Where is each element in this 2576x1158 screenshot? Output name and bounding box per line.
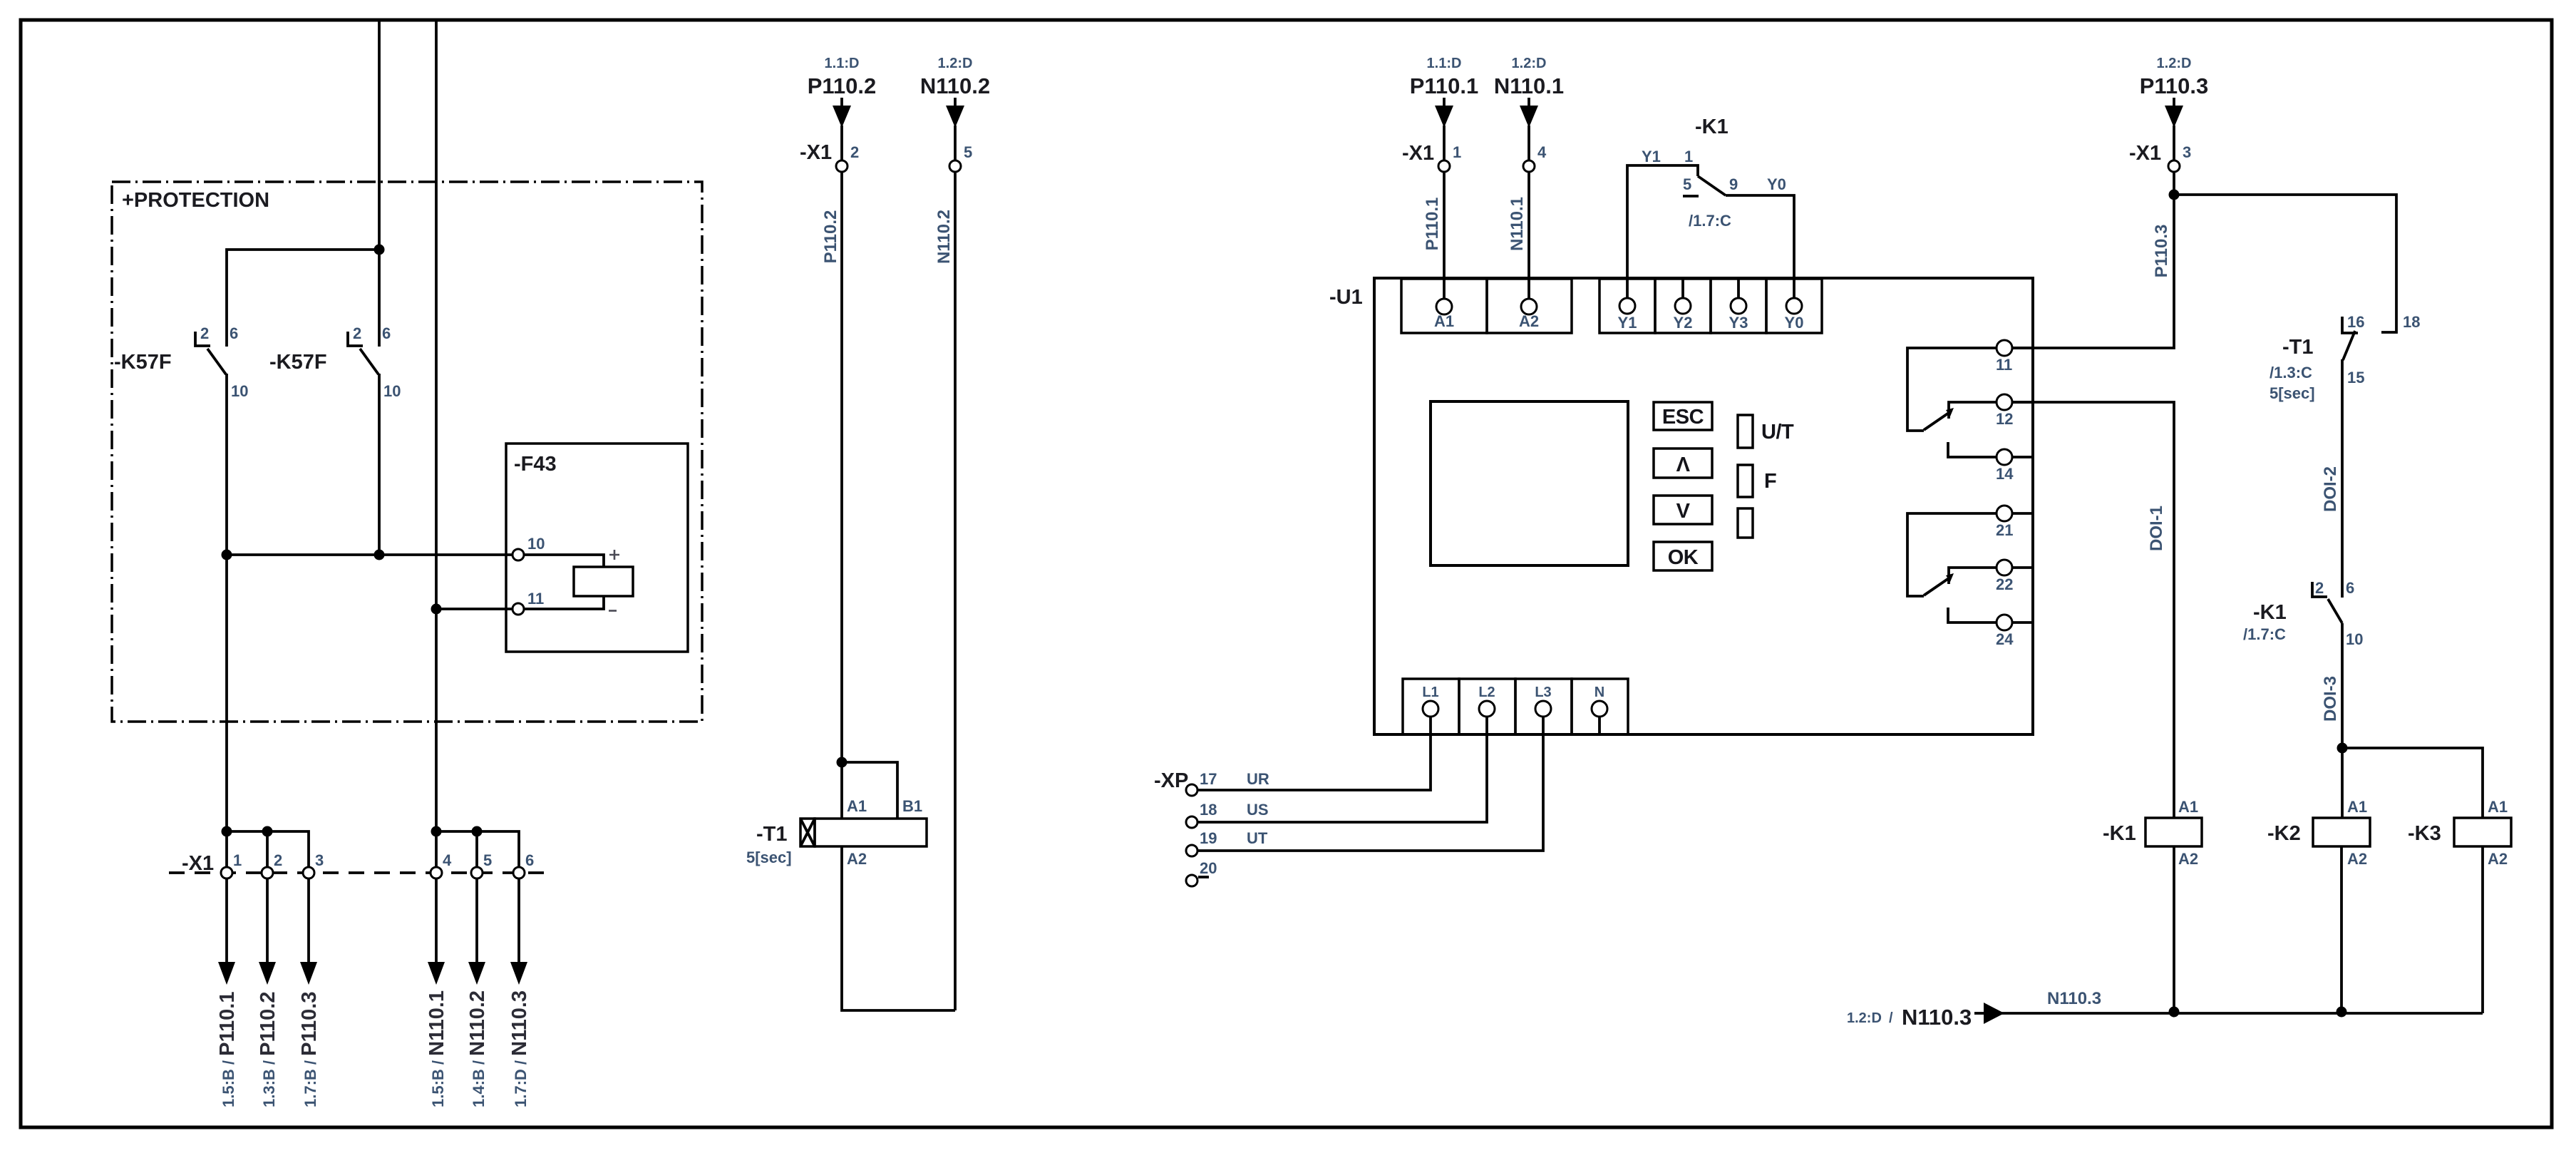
U1 display screen [1431,401,1628,565]
button up [1654,449,1712,478]
wire P110.3 down to contact row 11 [2012,125,2174,348]
wire K3 A2 down [2481,846,2484,1013]
svg-text:-X1: -X1 [2129,142,2161,165]
svg-text:DOI-3: DOI-3 [2321,676,2340,722]
wire P110.2 upper [840,125,843,819]
svg-text:6: 6 [2346,579,2354,597]
svg-text:Λ: Λ [1676,454,1691,476]
svg-text:P110.1: P110.1 [1410,73,1479,98]
node junction [2337,1007,2347,1018]
coil -K1 [2145,798,2202,868]
svg-text:P110.3: P110.3 [2140,73,2209,98]
node junction [262,826,273,837]
terminal -X1:4 [1523,160,1535,172]
node junction [431,826,442,837]
svg-text:A2: A2 [847,850,867,868]
enclosure +PROTECTION (dash-dot boundary) [112,182,702,722]
svg-text:-U1: -U1 [1329,286,1363,309]
svg-text:P110.1: P110.1 [1423,198,1442,251]
wire branch to K3 coil [2342,748,2483,818]
svg-text:21: 21 [1996,521,2013,539]
terminal -X1:5 [471,867,483,878]
wire DOI-1 from contact 12 to K1 coil [2012,402,2174,818]
svg-text:-XP: -XP [1154,769,1188,792]
svg-text:-K57F: -K57F [114,351,172,374]
svg-text:P110.2: P110.2 [808,73,877,98]
svg-text:17: 17 [1200,770,1217,788]
svg-text:-X1: -X1 [1402,142,1434,165]
svg-text:L2: L2 [1478,685,1495,700]
arrow to sheet 1.5:B (N110.1) [428,962,445,985]
svg-text:10: 10 [2346,630,2363,648]
svg-text:A2: A2 [1519,312,1539,330]
pin -XP:17 / wire UR to L1 [1186,717,1431,796]
pin 11 of F43 [512,603,524,615]
svg-text:OK: OK [1668,546,1699,569]
terminal -X1:1 [221,867,232,878]
svg-text:N110.1: N110.1 [1494,73,1564,98]
svg-text:-K57F: -K57F [269,351,327,374]
svg-text:1.2:D: 1.2:D [938,56,973,71]
svg-text:Y0: Y0 [1785,314,1804,332]
node junction [472,826,483,837]
device U1 (soft starter block) [1374,278,2033,734]
svg-text:N110.2: N110.2 [934,210,954,264]
contact -K1 (bottom right) [2243,579,2363,648]
net arrow source 1.1:D / P110.1 [1410,56,1479,128]
svg-text:5: 5 [1683,175,1691,193]
node junction [374,550,385,560]
contact -K1 (top, on Y1/Y0) [1627,116,1794,299]
svg-text:3: 3 [2183,143,2191,161]
svg-text:P110.3: P110.3 [2152,225,2171,278]
svg-text:1.2:D: 1.2:D [1512,56,1547,71]
svg-text:1.7:B / P110.3: 1.7:B / P110.3 [298,992,321,1107]
svg-text:-F43: -F43 [514,453,557,476]
U1 terminal box Y3 [1711,279,1766,333]
node junction DOI-3 branch [2337,743,2348,754]
svg-text:1: 1 [1684,148,1693,165]
arrow to sheet 1.3:B (P110.2) [259,962,276,985]
wire bus 1 (from top border to K57F-2 contact) [378,21,381,347]
svg-text:ESC: ESC [1662,406,1704,429]
svg-text:N110.3: N110.3 [1902,1005,1972,1030]
svg-text:15: 15 [2347,369,2364,386]
wire bus 2 (from top border down to terminal -X1:4) [435,21,438,867]
svg-text:2: 2 [274,851,282,869]
wire K57F-1 lower segment [225,374,228,867]
arrow to sheet 1.7:D (N110.3) [510,962,527,985]
terminal -X1:1 [1438,160,1450,172]
arrow to sheet 1.5:B (P110.1) [218,962,235,985]
node junction on P110.3 [2169,190,2180,200]
svg-text:-K1: -K1 [2103,822,2136,845]
svg-text:U/T: U/T [1761,421,1794,444]
svg-text:A1: A1 [2347,798,2367,816]
svg-text:1: 1 [233,851,242,869]
svg-text:1.2:D: 1.2:D [2157,56,2192,71]
svg-text:11: 11 [1996,356,2012,374]
node junction above T1 coil [837,757,847,768]
timer coil -T1 [800,797,927,868]
node junction [222,826,232,837]
svg-text:1.4:B / N110.2: 1.4:B / N110.2 [466,990,489,1107]
svg-text:-K2: -K2 [2267,822,2301,845]
svg-text:10: 10 [231,382,248,400]
svg-text:12: 12 [1996,410,2013,428]
svg-text:UT: UT [1247,829,1268,847]
svg-text:Y3: Y3 [1729,314,1748,332]
terminal -X1:5 [949,160,961,172]
terminal -X1:3 [303,867,314,878]
svg-text:L1: L1 [1422,685,1438,700]
svg-text:4: 4 [443,851,452,869]
svg-text:A1: A1 [2178,798,2198,816]
svg-text:N110.2: N110.2 [920,73,990,98]
svg-text:16: 16 [2347,313,2364,331]
wire T1 A2 down and across to N110.2 [842,846,955,1010]
terminal -X1:6 [513,867,525,878]
svg-text:6: 6 [230,324,238,342]
svg-text:DOI-1: DOI-1 [2147,506,2166,551]
svg-text:20: 20 [1200,859,1217,877]
LED spare [1738,508,1753,538]
wire branch to T1 pin B1 [842,762,897,819]
terminal -X1:4 [431,867,442,878]
wire branch to T1 contact pin 18 [2174,195,2396,332]
net arrow source 1.2:D / P110.3 [2140,56,2209,128]
svg-text:2: 2 [200,324,209,342]
svg-text:A1: A1 [847,797,867,815]
coil F43 internal [574,567,633,596]
U1 terminal box N [1572,679,1628,734]
arrow to sheet 1.4:B (N110.2) [468,962,485,985]
svg-text:Y2: Y2 [1674,314,1693,332]
net arrow source 1.1:D / P110.2 [808,56,877,128]
U1 terminal box A1 [1401,279,1487,333]
svg-text:V: V [1676,500,1691,523]
U1 terminal box L1 [1403,679,1459,734]
svg-text:19: 19 [1200,829,1217,847]
svg-text:22: 22 [1996,575,2013,593]
polarity minus mark [609,610,617,612]
U1 terminal box A2 [1487,279,1572,333]
svg-text:1.5:B / N110.1: 1.5:B / N110.1 [426,990,448,1107]
relay output contact 21/22/24 [1907,506,2033,648]
svg-text:B1: B1 [902,797,922,815]
svg-text:1.7:D / N110.3: 1.7:D / N110.3 [508,990,531,1107]
U1 terminal box Y0 [1766,279,1822,333]
terminal strip -X1 dashed line [169,871,546,874]
svg-text:Y1: Y1 [1642,148,1661,165]
svg-text:1.1:D: 1.1:D [825,56,860,71]
svg-text:N110.1: N110.1 [1508,197,1527,251]
contact K57F (right pole) [348,324,401,400]
wire F43 internal lower [524,596,604,609]
contact K57F (left pole) [195,324,248,400]
svg-text:3: 3 [315,851,324,869]
wire F43 internal [524,555,604,567]
svg-text:9: 9 [1729,175,1738,193]
timed contact -T1 [2270,313,2420,402]
button OK [1654,542,1712,570]
terminal -X1:2 [836,160,847,172]
svg-text:5: 5 [483,851,492,869]
svg-text:14: 14 [1996,465,2014,483]
svg-text:F: F [1764,470,1776,493]
svg-text:24: 24 [1996,630,2014,648]
svg-text:N: N [1594,685,1604,700]
svg-text:6: 6 [525,851,534,869]
U1 terminal box L2 [1459,679,1515,734]
wire branch row to terminals 1-3 [227,831,309,867]
polarity plus mark [609,550,619,560]
svg-text:5: 5 [964,143,972,161]
svg-text:11: 11 [527,590,544,608]
svg-text:10: 10 [383,382,401,400]
svg-text:UR: UR [1247,770,1269,788]
net arrow source 1.2:D / N110.2 [920,56,990,128]
svg-text:A1: A1 [1434,312,1454,330]
svg-text:P110.2: P110.2 [821,210,840,264]
svg-text:-K1: -K1 [2253,601,2287,624]
svg-text:2: 2 [850,143,859,161]
pin -XP:18 / wire US to L2 [1186,717,1487,828]
wire DOI-2 [2341,359,2344,598]
terminal -X1:3 [2168,160,2180,172]
svg-text:A2: A2 [2488,850,2508,868]
button ESC [1654,402,1712,430]
svg-text:1.5:B / P110.1: 1.5:B / P110.1 [216,992,239,1107]
wire N110.2 [954,125,957,1010]
svg-text:18: 18 [1200,801,1217,819]
U1 terminal box Y1 [1599,279,1655,333]
U1 terminal box L3 [1515,679,1572,734]
wire from bus 2 to F43 pin 11 [436,608,512,610]
wire P110.1 [1443,125,1446,299]
pin -XP:20 (spare stub) [1186,859,1217,886]
wire N110.3 [2001,1012,2483,1015]
svg-text:-X1: -X1 [800,141,832,164]
svg-text:1: 1 [1453,143,1461,161]
arrow to sheet 1.7:B (P110.3) [300,962,317,985]
wire K2 A2 to N110.3 [2340,846,2343,1013]
node junction [2169,1007,2180,1018]
net arrow source 1.2:D / N110.1 [1494,56,1564,128]
coil -K2 [2313,798,2370,868]
svg-text:1.2:D: 1.2:D [1847,1010,1882,1026]
LED U/T [1738,415,1794,448]
wire stubs below terminals 1-6 [227,878,519,963]
node junction [222,550,232,560]
svg-text:2: 2 [353,324,361,342]
svg-text:US: US [1247,801,1269,819]
button down [1654,496,1712,524]
device F43 (flasher relay box) [506,444,688,652]
svg-text:A1: A1 [2488,798,2508,816]
svg-text:Y1: Y1 [1618,314,1637,332]
svg-text:+PROTECTION: +PROTECTION [122,189,269,212]
wire branch to K57F-1 [227,250,379,347]
svg-text:Y0: Y0 [1767,175,1786,193]
wire K1 A2 to N110.3 [2173,846,2175,1013]
node junction on bus 1 [374,245,385,255]
svg-text:-K3: -K3 [2408,822,2441,845]
wire horizontal node row to F43 pin 10 [227,553,512,556]
svg-text:10: 10 [527,535,545,553]
svg-text:5[sec]: 5[sec] [746,849,792,866]
wire branch row to terminals 4-6 [436,831,519,867]
svg-text:18: 18 [2403,313,2420,331]
svg-text:L3: L3 [1535,685,1551,700]
svg-text:/: / [1889,1010,1893,1026]
svg-text:-X1: -X1 [182,852,214,875]
LED F [1738,465,1776,497]
pin 10 of F43 [512,549,524,560]
svg-text:1.3:B / P110.2: 1.3:B / P110.2 [257,992,279,1107]
U1 terminal box Y2 [1655,279,1711,333]
svg-text:N110.3: N110.3 [2047,989,2101,1008]
svg-text:/1.7:C: /1.7:C [1689,212,1731,230]
wire bus 1 lower segment (K57F-2 to node at y=778) [378,374,381,555]
svg-text:6: 6 [382,324,391,342]
svg-text:5[sec]: 5[sec] [2270,384,2315,402]
node junction [431,604,442,615]
svg-text:A2: A2 [2178,850,2198,868]
terminal -X1:2 [262,867,273,878]
svg-text:-K1: -K1 [1695,116,1729,138]
svg-text:-T1: -T1 [2282,336,2314,359]
pin -XP:19 / wire UT to L3 [1186,717,1543,856]
svg-text:1.1:D: 1.1:D [1427,56,1462,71]
svg-text:-T1: -T1 [756,823,788,846]
coil -K3 [2454,798,2511,868]
svg-text:/1.3:C: /1.3:C [2270,364,2312,381]
svg-text:4: 4 [1537,143,1547,161]
svg-text:2: 2 [2315,579,2324,597]
svg-text:DOI-2: DOI-2 [2321,466,2340,512]
wire N110.1 [1527,125,1530,299]
svg-text:/1.7:C: /1.7:C [2243,625,2286,643]
net arrow source 1.2:D / N110.3 [1847,1003,2004,1030]
wire DOI-3 [2341,623,2344,818]
svg-text:A2: A2 [2347,850,2367,868]
relay output contact 11/12/14 [1907,340,2033,483]
